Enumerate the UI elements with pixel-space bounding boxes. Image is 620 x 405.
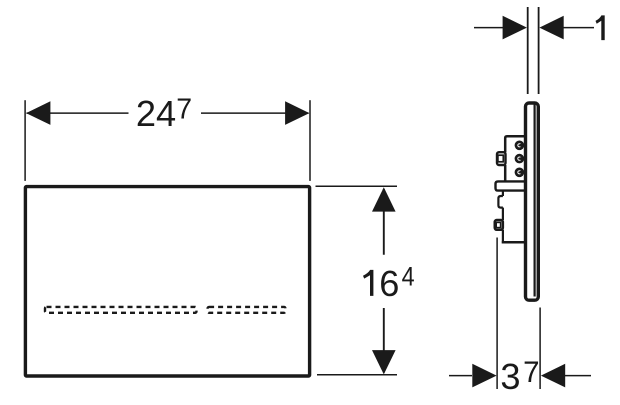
dim 1: left arrowhead (pointing right)	[503, 16, 527, 40]
dim 24^7: left arrowhead	[26, 101, 50, 125]
svg-text:6: 6	[379, 263, 399, 304]
dim 24^7: dimension line right segment	[201, 112, 309, 114]
dim 24^7: right extension line	[309, 100, 311, 181]
dim 24^7: right arrowhead	[285, 101, 309, 125]
dim 16^4: top extension line	[316, 185, 398, 187]
dim 3^7: left extension line	[496, 238, 498, 390]
svg-text:3: 3	[500, 356, 520, 397]
dim 1: left lead line	[474, 27, 504, 29]
side view: bracket lower-left wall (middle part)	[502, 208, 504, 220]
side view: mounting tab D (with square hole)	[495, 220, 503, 230]
dim 24^7: left extension line	[24, 100, 26, 181]
side view: screw 1	[515, 141, 525, 151]
side view: hook bump C	[498, 196, 503, 208]
dim 3^7: right lead line	[563, 375, 591, 377]
svg-text:4: 4	[402, 262, 415, 292]
dim 1: right arrowhead (pointing left)	[539, 16, 563, 40]
side view: mounting tab A (with square hole)	[497, 152, 506, 165]
side view: screw 2	[515, 154, 525, 164]
dim 16^4: bottom extension line	[317, 374, 397, 376]
side view: plate body (outer profile)	[526, 103, 539, 300]
svg-text:7: 7	[176, 93, 192, 125]
dim 16^4: down arrowhead	[372, 350, 396, 374]
svg-text:24: 24	[136, 93, 176, 134]
dim 16^4: dimension line upper segment	[383, 189, 385, 255]
side view: bracket bottom edge	[502, 241, 527, 244]
side view: tab D hole	[496, 222, 500, 227]
side view: screw 3	[515, 168, 525, 178]
dim 16^4: up arrowhead	[372, 187, 396, 211]
side view: bracket lower-left wall (bottom part)	[502, 230, 504, 244]
side view: tab A hole	[498, 155, 503, 162]
side view: bracket top edge	[505, 136, 526, 152]
side view: glass front inner line	[533, 105, 535, 297]
dim 24^7: dimension line left segment	[27, 112, 129, 114]
dim 16^4: label 16	[363, 263, 399, 304]
dim 1: left extension line	[527, 7, 529, 94]
side view: bracket lower-left wall (upper part)	[502, 191, 504, 196]
dim 1: label 1	[596, 15, 605, 40]
front view: right sensor slot (dashed)	[208, 307, 286, 313]
svg-text:7: 7	[523, 356, 539, 389]
dim 16^4: dimension line lower segment	[383, 308, 385, 373]
dim 3^7: left arrowhead (pointing right)	[472, 364, 496, 388]
side view: horizontal rail (tab B, open right end into plate)	[496, 181, 527, 190]
dim 3^7: right extension line	[539, 308, 541, 390]
front view: left sensor slot (dashed)	[45, 307, 197, 313]
side view: bracket upper-left wall	[504, 165, 507, 181]
front view: flush plate face	[25, 187, 309, 376]
dim 1: right lead line	[562, 27, 594, 29]
dim 1: right extension line	[538, 7, 540, 94]
dim 3^7: left lead line	[449, 375, 472, 377]
dim 3^7: right arrowhead (pointing left)	[541, 364, 565, 388]
